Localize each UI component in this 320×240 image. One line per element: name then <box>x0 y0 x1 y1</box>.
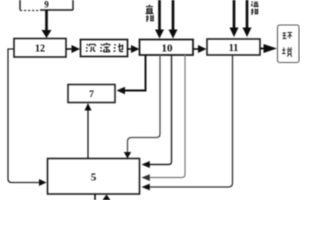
svg-text:10: 10 <box>162 43 174 55</box>
svg-text:5: 5 <box>91 172 97 184</box>
svg-text:9: 9 <box>44 0 49 10</box>
svg-text:11: 11 <box>229 43 238 54</box>
svg-text:12: 12 <box>35 44 45 55</box>
svg-text:7: 7 <box>89 90 94 100</box>
